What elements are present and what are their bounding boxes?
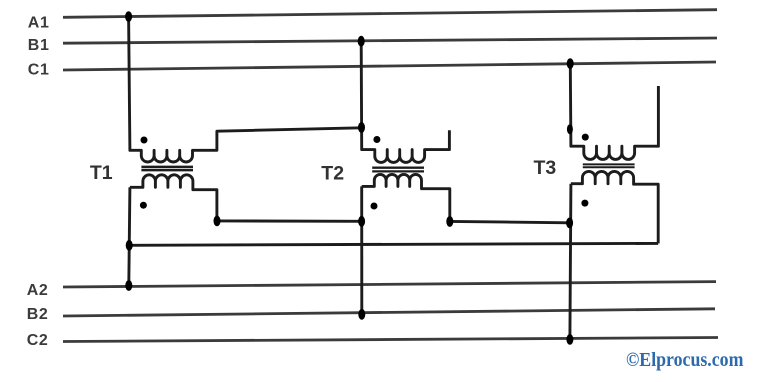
- svg-text:©Elprocus.com: ©Elprocus.com: [626, 349, 744, 371]
- node junction long return at T1 vertical: [126, 240, 133, 251]
- node junction link at C1 vertical: [566, 218, 573, 229]
- node junction on B2: [358, 309, 365, 320]
- node junction on A2: [125, 280, 132, 291]
- node junction T2 secondary left link: [358, 216, 365, 227]
- node junction T1 primary right at B1 vertical: [358, 122, 365, 133]
- wire T2 secondary left lead down to B2: [360, 186, 363, 314]
- svg-text:T1: T1: [90, 162, 113, 184]
- wire long return from T3 secondary right to T1 left vertical: [129, 243, 658, 245]
- wire link T2 secondary to C1 vertical: [450, 221, 570, 222]
- node junction on B1: [358, 36, 365, 47]
- node junction T2 secondary right link: [446, 216, 453, 227]
- wire bus A1: [63, 10, 717, 18]
- svg-text:A1: A1: [28, 14, 50, 31]
- wire bus B2: [63, 309, 715, 316]
- transformer T3 primary winding with leads (C1 side): [570, 64, 658, 160]
- svg-text:T3: T3: [534, 157, 557, 179]
- svg-text:C1: C1: [28, 61, 50, 78]
- polarity dot T1 secondary: [140, 202, 147, 209]
- polarity dot T2 secondary: [371, 203, 378, 210]
- transformer T1 secondary winding with right lead: [130, 175, 217, 221]
- svg-text:C2: C2: [27, 332, 49, 349]
- wire T1 secondary left lead down to A2: [129, 187, 130, 285]
- transformer T1 core: [141, 167, 193, 170]
- transformer T3 core: [583, 164, 635, 167]
- wire link T1 secondary to T2 secondary: [217, 219, 361, 222]
- transformer T3 secondary winding with right lead: [571, 171, 658, 243]
- polarity dot T1 primary: [141, 137, 148, 144]
- wire bus A2: [63, 282, 716, 287]
- polarity dot T3 primary: [582, 134, 589, 141]
- svg-text:T2: T2: [321, 162, 344, 184]
- node junction on A1: [125, 11, 132, 22]
- node junction on C1: [567, 58, 574, 69]
- transformer T1 primary winding with leads (A1 to B1 side): [129, 17, 362, 163]
- wire bus C2: [63, 338, 718, 342]
- polarity dot T2 primary: [373, 136, 380, 143]
- node junction on C2: [566, 334, 573, 345]
- polarity dot T3 secondary: [581, 200, 588, 207]
- transformer T2 secondary winding with right lead: [362, 174, 450, 221]
- svg-text:B2: B2: [27, 306, 49, 323]
- svg-text:B1: B1: [28, 37, 50, 54]
- transformer T2 primary winding with leads (B1 side): [361, 41, 449, 162]
- wire T3 secondary left lead down to C2: [570, 184, 571, 340]
- transformer T2 core: [372, 168, 424, 172]
- svg-text:A2: A2: [27, 282, 49, 299]
- wire bus B1: [63, 38, 717, 43]
- wire bus C1: [63, 62, 716, 70]
- node junction on C1 vertical: [567, 124, 573, 134]
- node junction T1 secondary right link: [214, 216, 221, 227]
